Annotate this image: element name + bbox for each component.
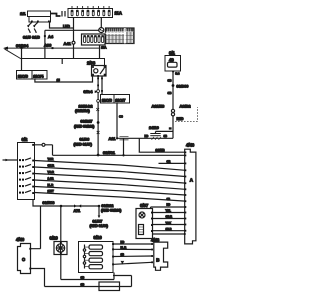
svg-text:(10/115:2): (10/115:2) bbox=[75, 109, 90, 113]
wire LHD upper bbox=[50, 22, 74, 28]
pin A4 vertical bbox=[44, 30, 46, 58]
pump 6/29 bbox=[50, 206, 68, 280]
svg-text:RD: RD bbox=[167, 203, 171, 207]
svg-text:(RHD 31/88): (RHD 31/88) bbox=[90, 224, 109, 228]
svg-text:2/33: 2/33 bbox=[87, 61, 96, 66]
pin A33 bbox=[52, 47, 54, 49]
svg-text:33/300: 33/300 bbox=[177, 83, 189, 88]
svg-text:Y: Y bbox=[122, 260, 124, 264]
pin A41 vertical bbox=[73, 18, 75, 59]
wire LHD lower bbox=[45, 29, 99, 31]
svg-text:B: B bbox=[156, 258, 159, 263]
svg-text:(RHD 31/87): (RHD 31/87) bbox=[74, 142, 93, 146]
svg-text:A41: A41 bbox=[64, 41, 72, 46]
svg-text:RD: RD bbox=[121, 240, 125, 244]
svg-text:OR: OR bbox=[167, 160, 171, 164]
svg-text:9/1: 9/1 bbox=[169, 51, 175, 56]
fusebox strip 11A bbox=[68, 6, 122, 18]
svg-text:31/86: 31/86 bbox=[80, 137, 91, 142]
svg-text:33/232: 33/232 bbox=[102, 203, 115, 208]
svg-text:SB: SB bbox=[121, 253, 125, 257]
svg-text:SB: SB bbox=[81, 276, 85, 280]
svg-text:1.GR: 1.GR bbox=[48, 176, 54, 180]
11C/7 drop to A11 bbox=[116, 103, 118, 138]
svg-text:T.BK: T.BK bbox=[166, 221, 172, 225]
relay 2/33 bbox=[87, 61, 106, 77]
splice 33/227 bbox=[74, 119, 100, 129]
svg-text:BL.R: BL.R bbox=[121, 245, 127, 249]
branch down to main wire bbox=[123, 138, 125, 155]
capacitor 24/10 bbox=[149, 125, 161, 140]
bus 2 bbox=[21, 59, 105, 66]
svg-text:30/204: 30/204 bbox=[16, 43, 29, 48]
svg-text:24/10: 24/10 bbox=[149, 125, 159, 130]
svg-text:(RHD 33/233): (RHD 33/233) bbox=[101, 208, 121, 212]
pin table grid bbox=[106, 28, 135, 44]
wires 6/37 to 4/46 bbox=[151, 206, 186, 208]
stub on bus 2 bbox=[61, 59, 63, 65]
wire 11C/4 to relay bbox=[35, 76, 93, 82]
svg-text:SB: SB bbox=[168, 91, 172, 95]
inline connector sym bbox=[97, 90, 100, 93]
wire from 1/1 to fuse strip bbox=[51, 14, 61, 17]
svg-text:4/46: 4/46 bbox=[186, 143, 195, 148]
main wire 33/581 bbox=[53, 145, 186, 156]
svg-text:A33: A33 bbox=[44, 43, 52, 48]
svg-text:A71: A71 bbox=[74, 209, 81, 213]
svg-text:A6/B2: A6/B2 bbox=[180, 104, 192, 109]
small fuse row box bbox=[82, 34, 106, 45]
svg-text:A11: A11 bbox=[109, 136, 117, 141]
svg-text:3/6:4: 3/6:4 bbox=[84, 89, 94, 94]
svg-text:10/114:2: 10/114:2 bbox=[79, 105, 93, 109]
table drop vertical bbox=[99, 45, 101, 59]
strip drop to small fuse row bbox=[100, 18, 102, 28]
relay drop to 11C/6 bbox=[101, 76, 103, 95]
wire 30/204 bus bbox=[3, 43, 100, 50]
junction on main wire bbox=[97, 154, 100, 157]
svg-text:BL.R: BL.R bbox=[48, 183, 54, 187]
svg-text:11C/7: 11C/7 bbox=[115, 97, 125, 102]
blower 6/37 bbox=[136, 203, 153, 238]
connector 11C/3 11C/4 bbox=[17, 71, 48, 80]
relay box 4/48 bbox=[151, 238, 168, 271]
svg-text:C: C bbox=[22, 257, 25, 262]
svg-text:SB: SB bbox=[164, 134, 168, 138]
wire A11 bbox=[117, 137, 173, 139]
svg-text:SB: SB bbox=[167, 197, 171, 201]
wire colour labels left bbox=[48, 157, 55, 193]
connector ticks bbox=[62, 11, 65, 17]
drop to 11C box bbox=[21, 48, 23, 70]
svg-text:LHD: LHD bbox=[63, 24, 70, 28]
svg-text:15: 15 bbox=[57, 78, 61, 82]
svg-text:31/5: 31/5 bbox=[23, 35, 32, 40]
svg-text:11C/4: 11C/4 bbox=[33, 73, 44, 78]
relay box 4/46 bbox=[184, 143, 196, 244]
svg-text:33/581: 33/581 bbox=[103, 150, 116, 155]
relay drop left chain bbox=[97, 76, 99, 155]
svg-text:A4: A4 bbox=[48, 34, 54, 39]
svg-text:8:4: 8:4 bbox=[175, 72, 180, 76]
splice 10/114:2 bbox=[75, 105, 99, 114]
svg-text:2.WT: 2.WT bbox=[48, 189, 55, 193]
stub wire OR bbox=[159, 162, 186, 164]
svg-text:4/40: 4/40 bbox=[16, 237, 25, 242]
svg-text:6/37: 6/37 bbox=[140, 203, 149, 208]
svg-text:A11/E3: A11/E3 bbox=[152, 104, 166, 109]
module 9/1 49 bbox=[165, 51, 181, 76]
svg-text:3/10: 3/10 bbox=[94, 235, 103, 240]
svg-text:GN.R: GN.R bbox=[48, 163, 55, 167]
svg-text:31/87: 31/87 bbox=[93, 218, 103, 223]
svg-text:1/1: 1/1 bbox=[20, 11, 26, 16]
wire 33/596 row bbox=[33, 200, 121, 214]
svg-text:33/227: 33/227 bbox=[81, 119, 93, 124]
component 1/1 ignition switch bbox=[20, 11, 51, 22]
svg-text:SB.R: SB.R bbox=[166, 227, 172, 231]
drop to 31/87 bbox=[90, 206, 109, 228]
svg-text:C6: C6 bbox=[119, 115, 123, 119]
svg-text:11C/6: 11C/6 bbox=[102, 97, 113, 102]
wire cap to 9/1 line bbox=[156, 130, 174, 132]
svg-text:31/6: 31/6 bbox=[32, 35, 41, 40]
9/1 drop wire bbox=[172, 72, 174, 138]
bottom wires bbox=[61, 273, 114, 280]
svg-text:11A: 11A bbox=[115, 11, 122, 16]
svg-text:SB: SB bbox=[81, 283, 85, 287]
svg-text:SB: SB bbox=[168, 79, 172, 83]
connector 4/40 bbox=[16, 237, 31, 274]
svg-text:GR.R: GR.R bbox=[166, 215, 173, 219]
svg-text:RD: RD bbox=[145, 134, 149, 138]
splice 33/300 bbox=[172, 84, 175, 87]
diagonal split bbox=[5, 49, 21, 59]
connector 6/2 bbox=[18, 137, 53, 200]
svg-text:T.GR: T.GR bbox=[48, 157, 54, 161]
svg-text:11C/3: 11C/3 bbox=[18, 73, 29, 78]
svg-text:33/596: 33/596 bbox=[43, 200, 56, 205]
svg-text:6/2: 6/2 bbox=[22, 137, 28, 142]
splice 31/86 bbox=[74, 137, 93, 147]
svg-text:VO.R: VO.R bbox=[48, 170, 54, 174]
wires 3/10 to 4/48 bbox=[114, 243, 152, 245]
4/40 wires bbox=[31, 206, 41, 249]
svg-text:6/29: 6/29 bbox=[50, 236, 59, 241]
svg-text:RHD: RHD bbox=[177, 117, 185, 121]
svg-text:30/5B: 30/5B bbox=[156, 148, 166, 152]
branch down to pin 30/5B bbox=[139, 138, 185, 152]
wire colour labels right bbox=[167, 160, 171, 202]
connector 3/10 bbox=[79, 235, 115, 272]
connector sym bbox=[97, 131, 100, 134]
6/2 internal contacts bbox=[3, 158, 35, 194]
dashed RHD alternative bbox=[175, 107, 198, 121]
six harness wires 6/2 to 4/46 bbox=[35, 161, 186, 202]
connector 11C/6 11C/7 bbox=[101, 95, 130, 104]
svg-text:15A: 15A bbox=[101, 46, 106, 50]
connector A11/E3 A6/B2 bbox=[152, 104, 192, 116]
svg-text:(RHD 33/232): (RHD 33/232) bbox=[74, 125, 94, 129]
fuse arrows 31/5 31/6 bbox=[23, 22, 41, 39]
svg-text:Y.BL: Y.BL bbox=[166, 209, 172, 213]
